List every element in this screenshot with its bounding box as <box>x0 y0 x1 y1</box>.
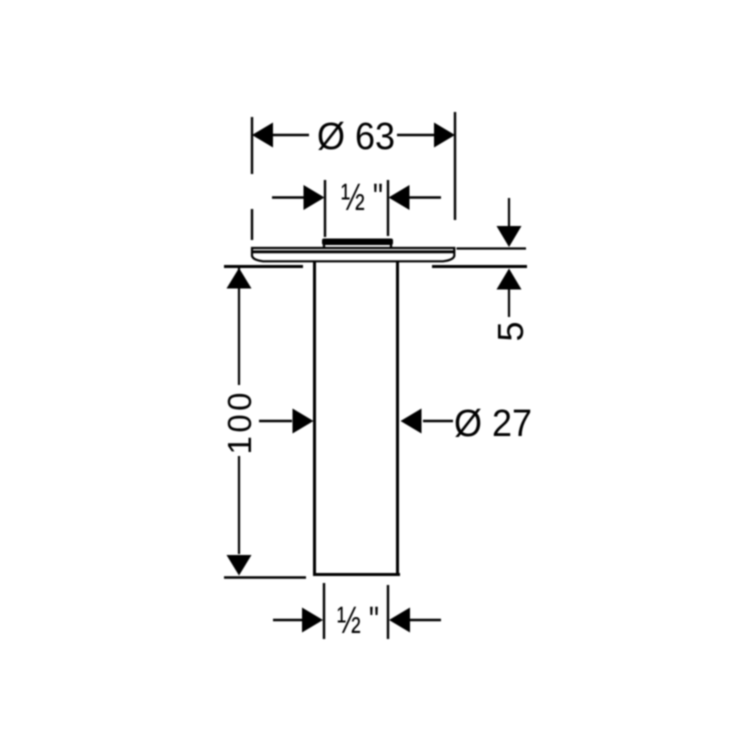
svg-text:Ø 27: Ø 27 <box>454 403 532 445</box>
svg-text:½ ": ½ " <box>341 177 383 219</box>
svg-text:½ ": ½ " <box>337 600 379 642</box>
svg-text:Ø 63: Ø 63 <box>317 116 395 158</box>
svg-text:100: 100 <box>221 393 258 455</box>
svg-text:5: 5 <box>490 321 531 341</box>
